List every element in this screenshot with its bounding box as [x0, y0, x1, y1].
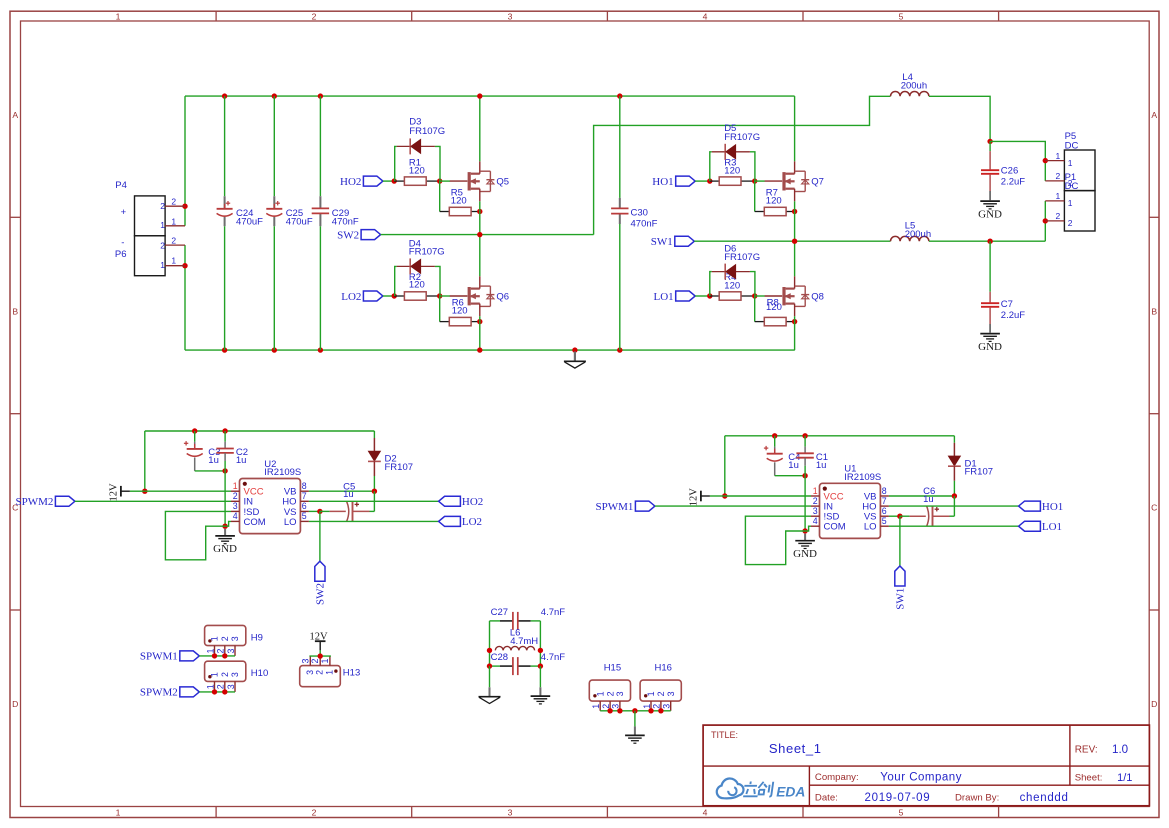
svg-text:2: 2 [1055, 211, 1060, 221]
svg-text:1: 1 [646, 691, 656, 696]
pin P6.1 [165, 265, 185, 267]
op-amp U1 IR2109S box [820, 483, 881, 538]
svg-text:DC: DC [1065, 140, 1079, 151]
header H16 pin1 dot [644, 694, 647, 697]
resistor R1 120 [394, 180, 404, 182]
U2 right pin stubs [300, 490, 309, 492]
svg-text:5: 5 [302, 511, 307, 521]
node H16.2 [658, 708, 663, 713]
svg-text:A: A [1151, 110, 1157, 120]
svg-text:LO: LO [284, 517, 297, 528]
svg-text:470uF: 470uF [286, 217, 313, 228]
node C24 top [222, 93, 227, 98]
transistor Q5 [450, 180, 468, 182]
net flag SPWM1 [635, 501, 655, 511]
inductor L4 200uh [891, 92, 929, 97]
svg-text:2019-07-09: 2019-07-09 [865, 792, 931, 804]
node Q7 source R7 [792, 209, 797, 214]
node C30 bottom [617, 347, 622, 352]
connector P4 box [135, 196, 166, 236]
svg-text:5: 5 [899, 11, 904, 21]
svg-text:2: 2 [1068, 218, 1073, 228]
pin P5.1 [1045, 160, 1064, 162]
svg-text:IR2109S: IR2109S [264, 467, 301, 478]
wire bottom bus [185, 349, 795, 351]
net flag SW1 [895, 566, 905, 586]
svg-text:1: 1 [205, 648, 215, 653]
wire R3 to Q7 gate [755, 180, 765, 182]
resistor R8 120 [754, 296, 756, 322]
node Q5 source R5 [477, 209, 482, 214]
net flag HO1 [676, 176, 696, 186]
node C2 top [222, 428, 227, 433]
svg-text:1: 1 [320, 658, 330, 663]
wire rail left drop [144, 431, 146, 491]
node LO1 a [707, 293, 712, 298]
capacitor C26 2.2uF [989, 141, 991, 151]
transistor Q8 [765, 295, 783, 297]
ground GND under C26 [980, 200, 1000, 202]
svg-text:B: B [12, 306, 18, 316]
svg-text:3: 3 [305, 670, 315, 675]
node H10 pin1 [212, 689, 217, 694]
connector P6 box [135, 236, 166, 276]
wire DC plus to P5 [990, 141, 1045, 181]
node LO2 b [437, 293, 442, 298]
wire Q6 source to bus [479, 316, 481, 350]
svg-text:1u: 1u [343, 489, 354, 500]
border column ticks bottom [215, 807, 217, 818]
svg-text:120: 120 [766, 196, 782, 207]
capacitor C2 1u [224, 431, 226, 442]
node cap bottom junction [802, 473, 807, 478]
wire H15 H16 ground bus [600, 710, 671, 712]
node gnd mid [632, 708, 637, 713]
svg-text:1.0: 1.0 [1112, 743, 1128, 756]
node L6 left [487, 648, 492, 653]
wire VB down to bootstrap cap [953, 496, 955, 516]
title block row divider 2 [809, 784, 1149, 786]
svg-text:200uh: 200uh [901, 81, 927, 92]
wire P1 riser [1044, 201, 1046, 241]
node C25 top [272, 93, 277, 98]
wire C29 upper [319, 96, 321, 196]
svg-text:120: 120 [724, 280, 740, 291]
svg-text:SPWM2: SPWM2 [15, 496, 53, 508]
net flag SPWM2 [180, 687, 200, 697]
wire IN row [75, 500, 231, 502]
title block rev column divider [1069, 725, 1071, 785]
wire HO1 flag to R3 [695, 180, 710, 182]
node LO2 a [392, 293, 397, 298]
svg-text:1u: 1u [816, 460, 827, 471]
wire top bus [185, 95, 795, 97]
svg-text:120: 120 [452, 306, 468, 317]
svg-text:2: 2 [1068, 178, 1073, 188]
node HO1 a [707, 178, 712, 183]
capacitor C28 4.7nF [490, 665, 501, 667]
pin P1.2 [1045, 220, 1064, 222]
svg-text:1u: 1u [208, 455, 219, 466]
header H10 pin1 dot [208, 675, 211, 678]
net flag LO2 [363, 291, 383, 301]
wire COM step [225, 521, 231, 526]
wire C27 loop [490, 620, 501, 622]
svg-text:H15: H15 [604, 662, 621, 673]
svg-text:P6: P6 [115, 249, 127, 260]
capacitor C29 470nF [319, 196, 321, 208]
diode D5 FR107G [710, 152, 712, 181]
svg-text:6: 6 [302, 501, 307, 511]
svg-text:1/1: 1/1 [1117, 772, 1132, 784]
svg-text:1: 1 [116, 11, 121, 21]
svg-text:2: 2 [160, 241, 165, 251]
node SW1 bridge mid [792, 239, 797, 244]
net flag HO2 [439, 496, 461, 506]
pin P6.2 [165, 244, 185, 246]
svg-text:1: 1 [205, 684, 215, 689]
node H9 pin1 [212, 653, 217, 658]
svg-text:12V: 12V [688, 488, 699, 507]
svg-text:LO1: LO1 [654, 291, 674, 303]
svg-text:Sheet:: Sheet: [1075, 773, 1103, 784]
capacitor C7 2.2uF [989, 241, 991, 292]
node Q5 drain bus [477, 93, 482, 98]
net flag LO1 [676, 291, 696, 301]
node P6 junction [182, 263, 187, 268]
svg-text:3: 3 [611, 704, 621, 709]
svg-text:2: 2 [310, 658, 320, 663]
svg-text:1: 1 [171, 216, 176, 226]
pin P4.1 [165, 225, 185, 227]
svg-text:2: 2 [220, 672, 230, 677]
wire VS down to SW2 [319, 511, 321, 561]
svg-text:2: 2 [171, 197, 176, 207]
svg-text:Q6: Q6 [496, 292, 509, 303]
net flag SPWM1 [180, 651, 200, 661]
capacitor C3 1u [194, 431, 196, 442]
node P4 junction [182, 204, 187, 209]
title block outline [703, 725, 1149, 806]
wire Q5 drain [479, 96, 481, 161]
node L6 right [538, 648, 543, 653]
svg-text:1: 1 [171, 256, 176, 266]
transistor Q7 [765, 180, 783, 182]
svg-text:8: 8 [302, 481, 307, 491]
wire C24 lower [224, 226, 226, 350]
node C3 top [192, 428, 197, 433]
ground filter left (triangle) [479, 696, 501, 698]
svg-text:GND: GND [978, 341, 1002, 353]
node Q6 bus [477, 347, 482, 352]
wire VB row [309, 490, 375, 492]
capacitor C27 4.7nF [500, 620, 513, 622]
net flag LO2 [439, 516, 461, 526]
svg-text:4.7nF: 4.7nF [541, 607, 565, 618]
node COM junction [222, 524, 227, 529]
wire VCC row [725, 495, 811, 497]
svg-text:Date:: Date: [815, 793, 838, 804]
wire IN row [655, 505, 811, 507]
logo LCEDA cloud icon [717, 778, 744, 798]
resistor R7 120 [754, 181, 756, 211]
svg-text:Q5: Q5 [496, 177, 509, 188]
svg-text:2: 2 [601, 704, 611, 709]
diode D6 FR107G [710, 272, 712, 296]
wire rail left drop [724, 436, 726, 496]
node rail left [142, 489, 147, 494]
svg-text:2: 2 [605, 691, 615, 696]
wire headers ground drop [634, 711, 636, 727]
resistor R3 120 [710, 180, 720, 182]
wire C24 upper [224, 96, 226, 196]
node H9 pin2 [222, 653, 227, 658]
svg-text:SW1: SW1 [651, 236, 673, 248]
svg-text:1: 1 [1068, 198, 1073, 208]
svg-text:2: 2 [216, 684, 226, 689]
svg-text:1: 1 [324, 670, 334, 675]
wire Q5 source to SW2 [479, 201, 481, 234]
wire driver top rail [145, 430, 375, 432]
wire Q6 drain from SW2 [479, 235, 481, 277]
node HO1 b [752, 178, 757, 183]
wire VB row [889, 495, 955, 497]
wire Q8 source to bus [794, 316, 796, 350]
svg-text:IR2109S: IR2109S [844, 472, 881, 483]
U1 left pin stubs [811, 495, 820, 497]
capacitor C24 470uF [224, 196, 226, 209]
ground GND under COM [224, 529, 226, 536]
svg-text:3: 3 [233, 501, 238, 511]
node LO1 b [752, 293, 757, 298]
capacitor C6 1u bootstrap [889, 515, 900, 517]
svg-text:3: 3 [226, 684, 236, 689]
net flag LO1 [1019, 521, 1041, 531]
svg-text:FR107G: FR107G [409, 126, 445, 137]
node cap bottom junction [222, 468, 227, 473]
wire HO row [309, 500, 439, 502]
header H10 box [205, 661, 246, 681]
node C29 bottom [318, 347, 323, 352]
svg-text:2: 2 [171, 236, 176, 246]
header H13 pin1 dot [334, 669, 337, 672]
svg-text:1: 1 [813, 486, 818, 496]
svg-text:4: 4 [233, 511, 238, 521]
node VB-D junction [372, 489, 377, 494]
node C29 top [318, 93, 323, 98]
ground headers (earth) [625, 734, 645, 736]
inductor L6 4.7mH [495, 646, 534, 650]
wire !SD row and COM loop [745, 516, 811, 564]
inductor L5 200uh [891, 236, 929, 241]
wire SW2 riser to L4 [594, 96, 891, 234]
svg-text:2: 2 [652, 704, 662, 709]
wire R2 to Q6 gate [440, 295, 450, 297]
svg-text:Drawn By:: Drawn By: [955, 793, 999, 804]
node DC plus [987, 139, 992, 144]
node C7 tap [987, 239, 992, 244]
border row ticks left [10, 216, 21, 218]
svg-text:120: 120 [451, 196, 467, 207]
svg-text:120: 120 [409, 166, 425, 177]
svg-text:1: 1 [233, 481, 238, 491]
power flag 12V [120, 486, 122, 497]
svg-text:7: 7 [302, 491, 307, 501]
svg-text:1: 1 [591, 704, 601, 709]
wire SPWM2 to H10 [199, 691, 235, 693]
svg-text:1u: 1u [788, 460, 799, 471]
svg-text:3: 3 [508, 11, 513, 21]
svg-text:COM: COM [244, 517, 266, 528]
transistor Q6 [450, 295, 468, 297]
header H15 pin stubs [599, 701, 601, 711]
wire VS down to SW1 [899, 516, 901, 566]
node COM junction [802, 528, 807, 533]
net flag SW1 [675, 236, 695, 246]
node C28 right [538, 663, 543, 668]
node P5 pin1 [1043, 158, 1048, 163]
svg-text:C7: C7 [1001, 299, 1013, 310]
wire Q7 source to SW1 [794, 201, 796, 241]
svg-text:C27: C27 [491, 607, 508, 618]
node VB-D junction [952, 493, 957, 498]
svg-text:3: 3 [230, 672, 240, 677]
svg-text:SW2: SW2 [315, 583, 327, 605]
svg-text:1: 1 [116, 808, 121, 818]
svg-text:HO2: HO2 [462, 496, 483, 508]
connector P5 box [1064, 150, 1095, 191]
ground filter right (earth) [531, 695, 551, 697]
svg-text:7: 7 [882, 496, 887, 506]
wire C29 lower [319, 226, 321, 350]
wire P6 negative vertical [184, 245, 186, 350]
node Q6 source R6 [477, 319, 482, 324]
svg-text:2: 2 [1055, 171, 1060, 181]
svg-text:1: 1 [1055, 151, 1060, 161]
header H13 pin stubs [309, 656, 311, 666]
svg-text:1: 1 [160, 220, 165, 230]
net flag SPWM2 [55, 496, 75, 506]
resistor R6 120 [439, 296, 441, 322]
svg-text:C: C [1151, 503, 1157, 513]
svg-text:P4: P4 [115, 180, 127, 191]
wire SW2 line [381, 234, 594, 236]
wire R4 to Q8 gate [755, 295, 765, 297]
net flag SW2 [315, 561, 325, 581]
diode D2 FR107 [373, 431, 375, 438]
svg-text:3: 3 [300, 658, 310, 663]
svg-text:EDA: EDA [776, 784, 805, 799]
title block logo cell divider [808, 766, 810, 806]
U1 right pin stubs [880, 495, 889, 497]
svg-text:120: 120 [409, 280, 425, 291]
svg-text:1: 1 [1055, 191, 1060, 201]
svg-text:1: 1 [210, 636, 220, 641]
svg-text:5: 5 [882, 516, 887, 526]
svg-text:LO2: LO2 [462, 516, 482, 528]
svg-text:4: 4 [703, 808, 708, 818]
svg-text:2: 2 [813, 496, 818, 506]
header H10 pin stubs [214, 681, 216, 692]
svg-text:HO2: HO2 [340, 176, 361, 188]
node SW2 bridge mid [477, 232, 482, 237]
wire Q7 drain [794, 96, 796, 161]
resistor R4 120 [710, 295, 720, 297]
svg-text:GND: GND [793, 548, 817, 560]
wire !SD row and COM loop [165, 511, 231, 559]
node H16.1 [648, 708, 653, 713]
wire H13 top [309, 655, 331, 657]
capacitor C1 1u [804, 436, 806, 447]
svg-text:FR107G: FR107G [724, 252, 760, 263]
header H9 box [205, 625, 246, 645]
svg-text:2.2uF: 2.2uF [1001, 177, 1025, 188]
svg-text:8: 8 [882, 486, 887, 496]
wire C25 lower [273, 226, 275, 350]
svg-text:Sheet_1: Sheet_1 [769, 741, 822, 756]
svg-text:2: 2 [160, 201, 165, 211]
svg-text:2: 2 [220, 636, 230, 641]
svg-text:chenddd: chenddd [1020, 792, 1069, 804]
svg-text:5: 5 [899, 808, 904, 818]
capacitor C5 1u bootstrap [309, 510, 320, 512]
svg-text:LO1: LO1 [1042, 521, 1062, 533]
svg-text:2: 2 [233, 491, 238, 501]
svg-text:H13: H13 [343, 667, 360, 678]
node C24 bottom [222, 347, 227, 352]
node ground tap [572, 347, 577, 352]
svg-text:120: 120 [724, 166, 740, 177]
ground main (triangle) [574, 352, 576, 362]
svg-text:C26: C26 [1001, 165, 1018, 176]
wire caps to COM [804, 476, 806, 531]
header H15 box [589, 680, 630, 701]
svg-text:LO2: LO2 [341, 291, 361, 303]
wire C30 lower [619, 224, 621, 350]
wire C3 to C2 bottom [195, 470, 225, 472]
wire LO1 flag to R4 [695, 295, 710, 297]
svg-text:FR107G: FR107G [409, 247, 445, 258]
resistor R2 120 [394, 295, 404, 297]
pin P4.2 [165, 205, 185, 207]
svg-text:1: 1 [642, 704, 652, 709]
svg-text:120: 120 [766, 302, 782, 313]
svg-text:1: 1 [210, 672, 220, 677]
node C30 top [617, 93, 622, 98]
node H15.3 [617, 708, 622, 713]
svg-text:4.7nF: 4.7nF [541, 652, 565, 663]
svg-text:2: 2 [315, 670, 325, 675]
svg-text:1u: 1u [923, 494, 934, 505]
svg-text:4: 4 [813, 516, 818, 526]
node C28 left [487, 663, 492, 668]
svg-text:TITLE:: TITLE: [711, 730, 738, 740]
header H16 pin stubs [650, 701, 652, 711]
svg-text:C28: C28 [491, 652, 508, 663]
svg-text:12V: 12V [108, 483, 119, 502]
logo LCEDA chuang glyph [758, 782, 763, 788]
logo LCEDA li glyph [743, 782, 773, 797]
svg-text:HO1: HO1 [652, 176, 673, 188]
wire caps to COM [224, 471, 226, 526]
svg-text:SW2: SW2 [337, 229, 359, 241]
capacitor C4 1u [774, 436, 776, 447]
svg-text:FR107: FR107 [965, 467, 994, 478]
svg-text:HO1: HO1 [1042, 501, 1063, 513]
svg-text:2: 2 [312, 11, 317, 21]
svg-text:1u: 1u [236, 455, 247, 466]
svg-text:SPWM1: SPWM1 [595, 501, 633, 513]
